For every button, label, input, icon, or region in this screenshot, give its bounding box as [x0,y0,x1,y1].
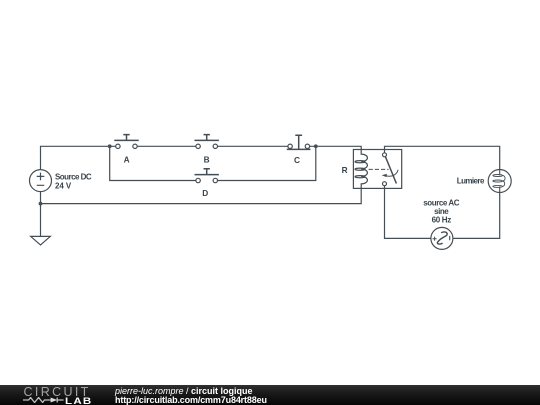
svg-text:Source DC: Source DC [55,172,92,181]
svg-text:60 Hz: 60 Hz [432,215,452,224]
svg-text:D: D [202,188,208,198]
svg-text:A: A [124,154,130,164]
svg-text:24 V: 24 V [55,181,72,190]
svg-text:Lumiere: Lumiere [457,177,485,186]
svg-text:C: C [294,155,300,165]
svg-text:R: R [342,165,348,175]
svg-text:B: B [204,154,210,164]
